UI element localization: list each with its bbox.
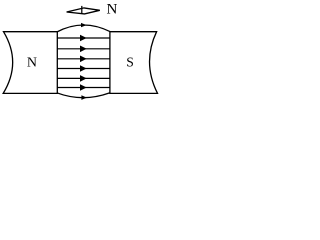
- svg-text:S: S: [126, 55, 134, 70]
- right pole piece (S pole of magnet): [110, 32, 158, 94]
- field line 3: [57, 56, 110, 63]
- svg-text:N: N: [107, 1, 118, 17]
- top fringing field line (arc): [57, 23, 110, 32]
- bottom fringing field line (arc): [57, 93, 110, 100]
- field line 5: [57, 75, 110, 82]
- field line 6: [57, 84, 110, 91]
- field line 4: [57, 65, 110, 72]
- svg-text:N: N: [27, 56, 37, 71]
- field line 2: [57, 46, 110, 53]
- background: [0, 0, 161, 103]
- left pole piece (N pole of magnet): [3, 32, 57, 94]
- field line 1: [57, 35, 110, 42]
- compass needle (plotting compass above field): [67, 6, 100, 14]
